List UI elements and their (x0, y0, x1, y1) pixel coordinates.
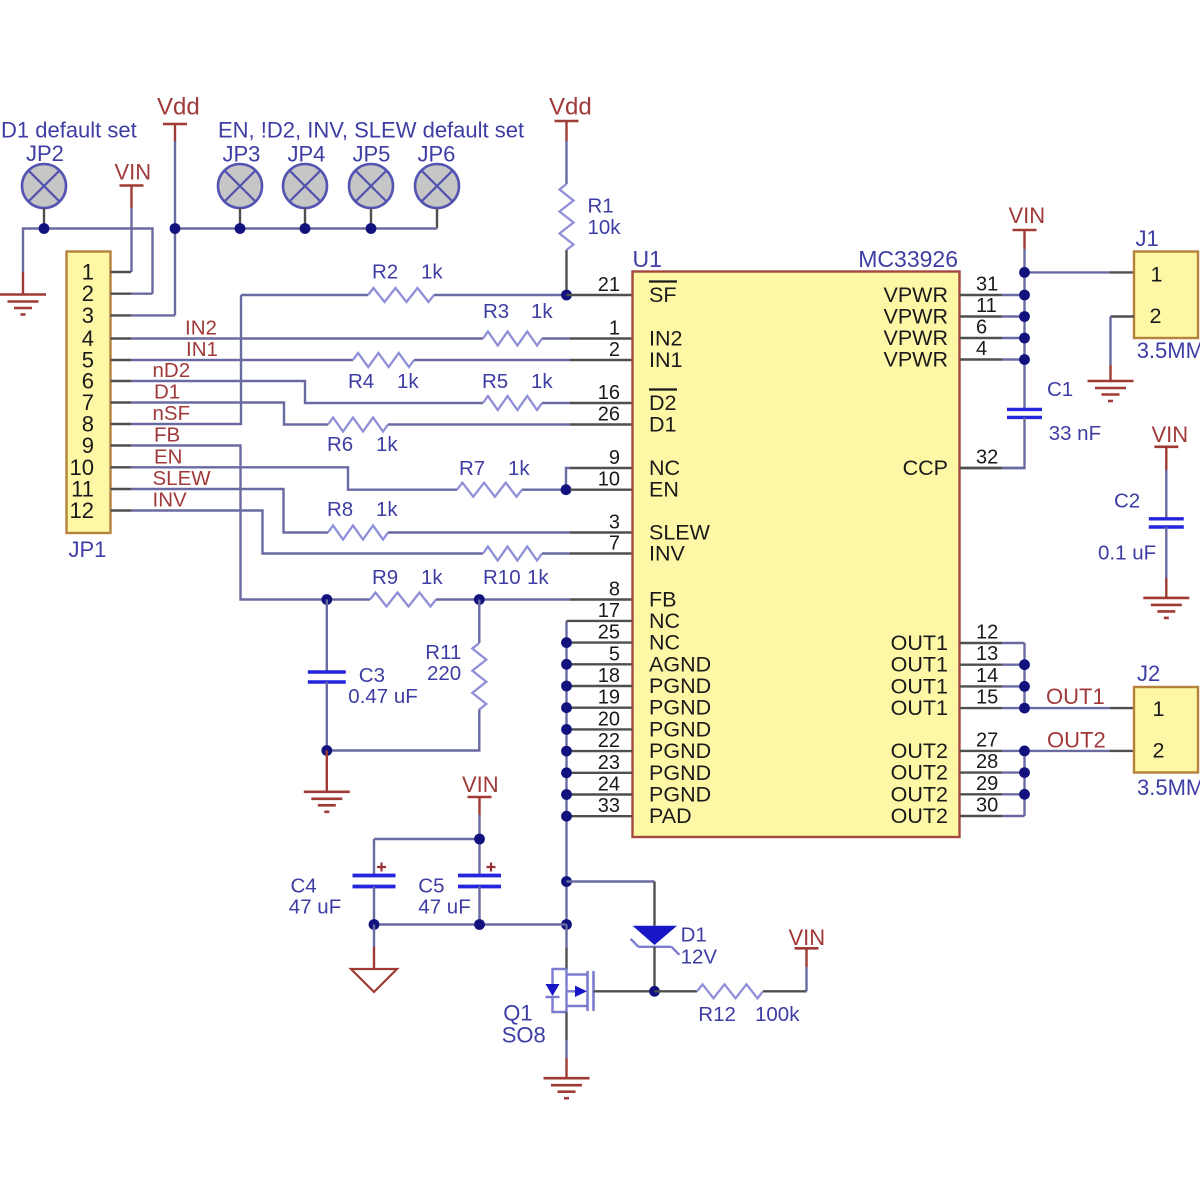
svg-text:nSF: nSF (153, 402, 191, 425)
svg-text:OUT2: OUT2 (891, 782, 948, 806)
wire to ground below C3 (326, 751, 328, 792)
svg-text:10: 10 (598, 469, 620, 491)
U1 lower left pin stubs (567, 641, 633, 643)
svg-text:14: 14 (976, 665, 998, 687)
svg-text:220: 220 (427, 662, 461, 685)
wire IN2 from JP1 pin4 (131, 337, 483, 339)
jumper JP6 (415, 164, 459, 208)
junction C4 bottom (369, 919, 380, 930)
svg-text:C2: C2 (1114, 490, 1140, 513)
svg-text:EN, !D2, INV, SLEW default set: EN, !D2, INV, SLEW default set (218, 118, 524, 143)
wire to triangle ground (373, 925, 375, 948)
wire C4 C5 bottom rail (374, 887, 567, 925)
JP1 pin stubs (111, 271, 132, 273)
svg-text:12V: 12V (681, 946, 718, 969)
svg-text:9: 9 (609, 447, 620, 469)
wire D1 from JP1 pin7 (131, 403, 328, 425)
svg-text:15: 15 (976, 687, 998, 709)
jumper JP5 (349, 164, 393, 208)
wire R12 to VIN (805, 967, 807, 991)
wire VIN down to rail (478, 815, 480, 839)
svg-text:IN1: IN1 (649, 348, 682, 372)
svg-text:FB: FB (154, 424, 180, 447)
svg-text:27: 27 (976, 729, 998, 751)
wire GND bus left (23, 229, 153, 294)
svg-text:1k: 1k (531, 300, 553, 323)
svg-text:10k: 10k (588, 216, 622, 239)
svg-text:1k: 1k (376, 498, 398, 521)
connector J2 (1134, 687, 1198, 773)
wire SLEW from JP1 pin11 (131, 489, 328, 533)
svg-text:R1: R1 (588, 195, 614, 218)
svg-text:R12: R12 (698, 1003, 736, 1026)
J1 pin2 stub (1111, 315, 1135, 317)
svg-text:7: 7 (609, 533, 620, 555)
U1 pin 8 stub (570, 598, 633, 600)
svg-text:U1: U1 (633, 246, 662, 272)
junction EN pins 9-10 (561, 484, 572, 495)
ground triangle (351, 969, 397, 992)
U1 D2 overline (649, 388, 677, 390)
junction R1 R2 pin21 (561, 290, 572, 301)
jumper JP2 (22, 164, 66, 208)
svg-text:VPWR: VPWR (884, 326, 949, 350)
IC U1 MC33926 (633, 272, 960, 838)
wire OUT2 bus (1025, 751, 1111, 816)
svg-text:31: 31 (976, 274, 998, 296)
svg-text:C1: C1 (1047, 378, 1073, 401)
svg-text:C5: C5 (418, 875, 444, 898)
transistor Q1 mosfet (553, 969, 567, 984)
U1 right pin stubs (960, 294, 1003, 296)
svg-text:R9: R9 (372, 566, 398, 589)
svg-text:VPWR: VPWR (884, 283, 949, 307)
svg-text:20: 20 (598, 708, 620, 730)
junction VIN rail (474, 834, 485, 845)
svg-text:SF: SF (649, 283, 676, 307)
svg-text:INV: INV (649, 542, 686, 566)
wire PGND bus (565, 621, 567, 925)
svg-text:12: 12 (976, 622, 998, 644)
svg-text:NC: NC (649, 631, 680, 655)
svg-text:1k: 1k (397, 370, 419, 393)
junction dots Vdd bus (170, 223, 181, 234)
svg-text:11: 11 (976, 295, 997, 317)
svg-text:VIN: VIN (462, 772, 499, 797)
wire VIN to JP1 pin1 (130, 208, 132, 272)
ground (0, 293, 46, 296)
svg-text:J1: J1 (1136, 226, 1159, 251)
U1 pin 1 stub (570, 337, 633, 339)
J2 pin2 stub (1110, 750, 1134, 752)
svg-text:R6: R6 (327, 433, 353, 456)
junction GND bus JP2 (39, 223, 50, 234)
svg-text:PGND: PGND (649, 739, 711, 763)
svg-text:R10: R10 (483, 566, 521, 589)
wire J1 pin2 to ground (1109, 317, 1111, 366)
svg-text:J2: J2 (1137, 661, 1160, 686)
svg-text:2: 2 (1150, 304, 1162, 328)
wire C2 to ground (1165, 527, 1167, 578)
svg-text:R3: R3 (483, 300, 509, 323)
svg-text:23: 23 (598, 752, 620, 774)
svg-text:1k: 1k (421, 566, 443, 589)
U1 pin 10 stub (570, 489, 633, 491)
U1 SF overline (649, 280, 677, 282)
svg-text:R2: R2 (372, 261, 398, 284)
svg-text:21: 21 (598, 274, 620, 296)
junction dots VIN bus (1019, 267, 1030, 278)
svg-text:D2: D2 (649, 391, 676, 415)
svg-text:VPWR: VPWR (884, 305, 949, 329)
svg-text:8: 8 (609, 579, 620, 601)
junction FB R11 (474, 594, 485, 605)
J2 pin1 stub (1110, 707, 1134, 709)
jumper JP4 (283, 164, 327, 208)
svg-text:PGND: PGND (649, 674, 711, 698)
svg-text:12: 12 (70, 498, 94, 523)
svg-text:13: 13 (976, 643, 998, 665)
jumper JP3 (218, 164, 262, 208)
svg-text:C4: C4 (291, 875, 317, 898)
wire Vdd to R1 (565, 141, 567, 184)
zener diode D1 12V (653, 882, 655, 926)
svg-text:33: 33 (598, 795, 620, 817)
svg-text:3.5MM: 3.5MM (1137, 338, 1200, 363)
svg-text:VPWR: VPWR (884, 348, 949, 372)
connector JP1 (67, 252, 111, 534)
ground (544, 1077, 590, 1080)
svg-text:JP1: JP1 (69, 537, 107, 562)
wire INV from JP1 pin12 (131, 511, 483, 554)
svg-text:24: 24 (598, 774, 620, 796)
U1 pin 26 stub (570, 423, 633, 425)
wire GND drop red (22, 272, 24, 295)
svg-text:1: 1 (1151, 263, 1163, 287)
junction dots OUT2 bus (1019, 746, 1030, 757)
wire nD2 from JP1 pin6 (131, 381, 483, 403)
svg-text:0.1 uF: 0.1 uF (1098, 542, 1156, 565)
junction zener gate R12 (649, 986, 660, 997)
svg-text:NC: NC (649, 609, 680, 633)
svg-text:D1 default set: D1 default set (1, 118, 137, 143)
svg-text:28: 28 (976, 751, 998, 773)
svg-text:OUT1: OUT1 (891, 674, 948, 698)
svg-text:MC33926: MC33926 (858, 246, 958, 272)
svg-text:OUT1: OUT1 (891, 653, 948, 677)
U1 pin 21 stub (567, 294, 633, 296)
svg-text:INV: INV (153, 489, 188, 512)
svg-text:D1: D1 (154, 381, 180, 404)
ground (304, 790, 350, 793)
svg-text:D1: D1 (649, 413, 676, 437)
ground (1088, 380, 1134, 383)
svg-text:Vdd: Vdd (157, 94, 200, 121)
svg-text:PGND: PGND (649, 717, 711, 741)
svg-text:NC: NC (649, 456, 680, 480)
wire C1 to CCP pin32 (1002, 417, 1025, 468)
svg-text:19: 19 (598, 687, 620, 709)
wire JP1 pin3 to Vdd (131, 314, 175, 316)
wire JP1 pin2 to GND bus (131, 293, 153, 295)
svg-text:JP2: JP2 (26, 141, 64, 166)
svg-text:VIN: VIN (789, 925, 826, 950)
svg-text:FB: FB (649, 588, 676, 612)
svg-text:OUT2: OUT2 (891, 739, 948, 763)
svg-text:32: 32 (976, 447, 998, 469)
junction C5 bottom (474, 919, 485, 930)
svg-text:R11: R11 (425, 641, 461, 664)
svg-text:2: 2 (1153, 739, 1165, 763)
svg-text:AGND: AGND (649, 652, 711, 676)
svg-text:OUT1: OUT1 (1046, 684, 1105, 709)
svg-text:4: 4 (976, 338, 987, 360)
svg-text:IN2: IN2 (185, 317, 217, 340)
svg-text:VIN: VIN (1152, 422, 1189, 447)
svg-text:5: 5 (609, 643, 620, 665)
svg-text:R7: R7 (459, 457, 485, 480)
wire OUT1 bus (1025, 643, 1111, 708)
svg-text:SLEW: SLEW (153, 467, 212, 490)
svg-text:1k: 1k (527, 566, 549, 589)
wire VIN to J1 pin1 (1025, 271, 1111, 273)
svg-text:17: 17 (598, 600, 620, 622)
svg-text:R4: R4 (348, 370, 374, 393)
svg-text:PGND: PGND (649, 696, 711, 720)
svg-text:100k: 100k (755, 1003, 800, 1026)
svg-text:PAD: PAD (649, 804, 692, 828)
svg-text:47 uF: 47 uF (418, 896, 470, 919)
svg-text:1k: 1k (421, 261, 443, 284)
U1 pin 9 stub (570, 467, 633, 469)
svg-text:nD2: nD2 (153, 359, 191, 382)
svg-text:29: 29 (976, 773, 998, 795)
U1 pin 7 stub (570, 552, 633, 554)
junction FB C3 (321, 594, 332, 605)
svg-text:1: 1 (1153, 697, 1165, 721)
wire IN1 from JP1 pin5 (131, 359, 353, 361)
ground (1143, 597, 1189, 600)
U1 pin 17 stub (567, 620, 633, 622)
svg-text:R8: R8 (327, 498, 353, 521)
junction dots PGND bus (561, 637, 572, 648)
wire PGND bus to Q1 drain (565, 925, 567, 948)
wire nSF from JP1 pin8 (131, 295, 241, 424)
svg-text:2: 2 (609, 339, 620, 361)
svg-text:Vdd: Vdd (549, 94, 592, 121)
svg-text:3.5MM: 3.5MM (1137, 775, 1200, 800)
svg-text:C3: C3 (359, 664, 385, 687)
svg-text:EN: EN (649, 478, 679, 502)
svg-text:1k: 1k (531, 370, 553, 393)
svg-text:OUT2: OUT2 (891, 761, 948, 785)
jumper JP2 stub (43, 208, 45, 229)
svg-text:OUT2: OUT2 (891, 804, 948, 828)
svg-text:OUT1: OUT1 (891, 631, 948, 655)
wire EN from JP1 pin10 (131, 467, 457, 489)
svg-text:PGND: PGND (649, 761, 711, 785)
svg-text:22: 22 (598, 730, 620, 752)
wire Vdd bus (175, 141, 437, 315)
svg-text:PGND: PGND (649, 783, 711, 807)
svg-text:R5: R5 (482, 370, 508, 393)
svg-text:OUT2: OUT2 (1047, 728, 1106, 753)
wire PGND to zener (567, 880, 655, 882)
svg-text:16: 16 (598, 382, 620, 404)
U1 pin 3 stub (570, 531, 633, 533)
svg-text:VIN: VIN (115, 160, 152, 185)
svg-text:3: 3 (609, 512, 620, 534)
svg-text:0.47 uF: 0.47 uF (348, 685, 418, 708)
svg-text:VIN: VIN (1009, 203, 1046, 228)
svg-text:1: 1 (609, 318, 620, 340)
svg-text:IN1: IN1 (186, 338, 218, 361)
svg-text:6: 6 (976, 317, 987, 339)
svg-text:25: 25 (598, 622, 620, 644)
svg-text:30: 30 (976, 795, 998, 817)
U1 pin 2 stub (570, 359, 633, 361)
svg-text:CCP: CCP (903, 456, 948, 480)
junction dots OUT1 bus (1019, 659, 1030, 670)
svg-text:OUT1: OUT1 (891, 696, 948, 720)
svg-text:D1: D1 (681, 924, 707, 947)
junction C3 R11 gnd (321, 745, 332, 756)
svg-text:1k: 1k (508, 457, 530, 480)
svg-text:SO8: SO8 (502, 1023, 546, 1048)
svg-text:18: 18 (598, 665, 620, 687)
svg-text:26: 26 (598, 404, 620, 426)
Q1 source lead (565, 1012, 567, 1040)
svg-text:33 nF: 33 nF (1049, 422, 1101, 445)
connector J1 (1134, 252, 1198, 339)
svg-text:1k: 1k (376, 433, 398, 456)
Q1 gate lead (594, 990, 655, 992)
svg-text:3: 3 (82, 303, 94, 328)
J1 pin1 stub (1110, 271, 1134, 273)
wire VIN bus (1023, 249, 1025, 409)
svg-text:EN: EN (154, 445, 182, 468)
svg-text:47 uF: 47 uF (289, 896, 341, 919)
wire FB from JP1 pin9 (131, 446, 370, 600)
jumper stubs JP3 JP4 JP5 JP6 (239, 208, 241, 229)
wire C4 C5 top rail (374, 839, 480, 876)
svg-text:IN2: IN2 (649, 327, 682, 351)
U1 pin 16 stub (570, 402, 633, 404)
wire EN to NC pin9 (566, 468, 570, 490)
